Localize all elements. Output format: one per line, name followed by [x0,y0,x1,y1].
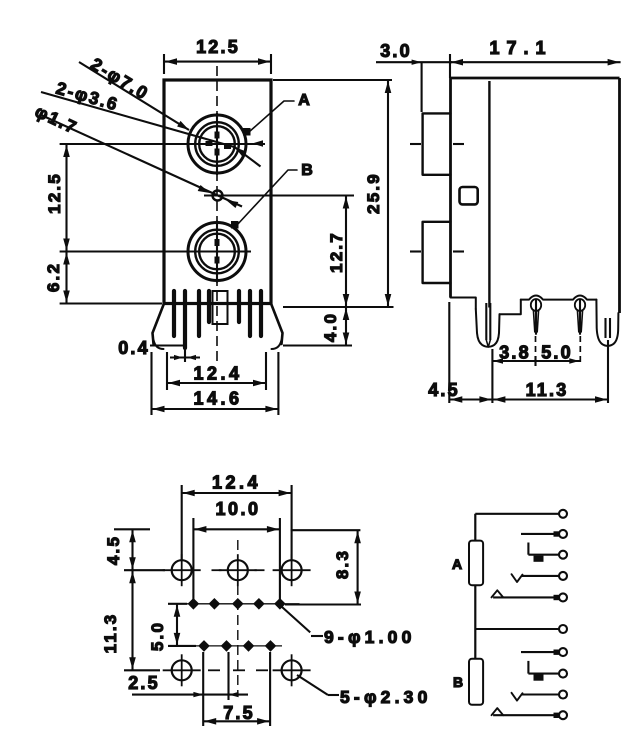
svg-text:4.5: 4.5 [104,535,123,565]
svg-text:11.3: 11.3 [526,380,569,400]
svg-text:8.3: 8.3 [333,549,352,579]
svg-text:B: B [301,162,313,179]
svg-text:12.5: 12.5 [196,37,240,57]
svg-text:B: B [453,674,463,690]
svg-text:12.7: 12.7 [327,231,346,273]
svg-text:12.4: 12.4 [212,473,261,493]
svg-text:A: A [298,92,310,109]
svg-text:6.2: 6.2 [44,262,63,292]
svg-text:12.5: 12.5 [45,172,64,214]
svg-text:5.0: 5.0 [541,343,573,363]
svg-text:5.0: 5.0 [148,621,167,651]
svg-text:25.9: 25.9 [364,172,383,214]
svg-text:3.8: 3.8 [499,343,531,363]
svg-text:14.6: 14.6 [193,389,242,409]
svg-text:4.5: 4.5 [428,380,460,400]
svg-text:9-φ1.00: 9-φ1.00 [324,627,416,647]
svg-text:5-φ2.30: 5-φ2.30 [340,687,432,707]
svg-text:4.0: 4.0 [321,312,340,342]
svg-text:11.3: 11.3 [101,613,120,654]
svg-text:3.0: 3.0 [380,41,412,61]
svg-text:10.0: 10.0 [215,499,260,519]
svg-text:0.4: 0.4 [118,338,150,358]
svg-text:7.5: 7.5 [223,703,255,723]
svg-text:17.1: 17.1 [489,38,552,58]
svg-text:2.5: 2.5 [128,673,160,693]
svg-text:φ1.7: φ1.7 [32,101,81,138]
svg-text:A: A [452,556,462,572]
svg-text:12.4: 12.4 [193,364,242,384]
